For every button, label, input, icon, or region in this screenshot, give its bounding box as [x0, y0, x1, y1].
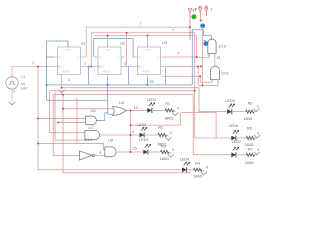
blue drop U2 Qbar node	[128, 67, 130, 85]
svg-text:U14: U14	[85, 137, 93, 142]
svg-text:4: 4	[32, 61, 34, 65]
svg-text:3: 3	[68, 78, 70, 82]
wire riser from line T3 to U12 input A	[196, 36, 198, 58]
svg-text:0: 0	[172, 148, 174, 152]
svg-text:4: 4	[192, 8, 194, 12]
svg-text:180Ω: 180Ω	[243, 117, 252, 121]
U9 out to LED1	[128, 109, 148, 111]
blue drop U3 Qbar	[165, 67, 167, 85]
svg-text:21: 21	[217, 56, 221, 60]
U13 out up to U12 input B	[214, 54, 216, 67]
wire LED1 to R1	[152, 109, 165, 111]
wire riser from line T2 down to LED6 feed	[195, 33, 232, 138]
ground after R4	[202, 170, 204, 172]
U3 reset pin to bus	[146, 79, 148, 85]
blue probe indicator	[200, 23, 205, 28]
ground after R5	[254, 110, 256, 111]
svg-text:R3: R3	[161, 145, 166, 149]
svg-text:Q: Q	[77, 58, 79, 60]
resistor R2	[158, 133, 166, 136]
blue drop from U1 Qbar node	[88, 67, 90, 85]
inverter out to U8 lower input	[95, 154, 105, 156]
svg-text:LED1: LED1	[147, 98, 156, 102]
svg-text:OUT: OUT	[106, 50, 111, 52]
LED3	[143, 144, 150, 154]
and gate U12 (points up)	[208, 39, 216, 57]
svg-text:R2: R2	[158, 126, 163, 130]
wire riser x=63 down to LED4 resistor	[63, 95, 190, 173]
svg-text:8: 8	[201, 18, 203, 22]
svg-text:U3: U3	[162, 40, 168, 45]
blue bus wire y=84.9	[47, 84, 193, 86]
green probe indicator	[191, 14, 196, 19]
svg-text:LED5: LED5	[225, 99, 234, 103]
blue wire to gates area	[47, 100, 113, 120]
svg-text:U8: U8	[108, 137, 114, 142]
svg-text:180Ω: 180Ω	[245, 143, 254, 147]
ground after R1	[174, 110, 176, 112]
wire riser x=49.7 to U7 upper input	[50, 91, 85, 133]
wire riser x=58.1 to U7 lower input, bus D	[55, 92, 86, 141]
and gate U13 (points up)	[211, 66, 220, 82]
blue feedback loop U1	[47, 41, 69, 100]
ground under V1	[9, 102, 15, 105]
ground after R6	[255, 137, 257, 138]
svg-text:0: 0	[257, 131, 259, 135]
svg-text:1: 1	[84, 62, 86, 66]
blue drop U2 bottom pin	[107, 79, 109, 100]
and gate U5	[86, 116, 101, 125]
svg-text:0: 0	[177, 107, 179, 111]
svg-text:R1: R1	[165, 102, 170, 106]
svg-text:R6: R6	[247, 127, 252, 131]
svg-text:9: 9	[99, 151, 101, 155]
svg-text:LED2: LED2	[137, 123, 146, 127]
svg-text:4: 4	[132, 130, 134, 134]
LED1 branch loop	[131, 110, 217, 152]
svg-text:U9: U9	[119, 100, 125, 105]
wire LED7 to R7	[236, 154, 246, 156]
svg-text:CLK: CLK	[60, 67, 65, 69]
svg-text:RESET: RESET	[63, 72, 71, 74]
probe P3, net 7	[205, 6, 209, 16]
wire LED3 to R3	[148, 151, 161, 153]
wire branch x=58.1 to U5 lower input	[58, 121, 86, 123]
wire riser x=77 and U8 upper input feed	[38, 98, 106, 150]
resistor R3	[161, 150, 169, 153]
svg-text:15: 15	[133, 147, 137, 151]
U8 out to LED3	[116, 151, 143, 153]
or gate U9	[112, 107, 128, 116]
chain U2 Qbar to U3 CLK, riser to line T2	[91, 33, 194, 67]
svg-text:V1: V1	[21, 75, 25, 79]
and gate U7	[85, 130, 101, 139]
LED5	[227, 104, 234, 114]
svg-text:180Ω: 180Ω	[164, 117, 173, 121]
blue probe indicator at U12	[204, 39, 206, 42]
resistor R7	[246, 153, 254, 156]
wire stub y=76.2 to U13 input A riser	[162, 76, 201, 82]
ground after R3	[169, 152, 171, 154]
LED2	[140, 127, 147, 137]
svg-text:2: 2	[124, 62, 126, 66]
red bus A (y=87.8) and LED5 feed wire	[62, 88, 228, 112]
svg-text:12: 12	[134, 106, 138, 110]
resistor R6	[246, 136, 254, 139]
svg-text:LED4: LED4	[180, 157, 189, 161]
resistor R1	[165, 109, 173, 112]
svg-text:OUT: OUT	[65, 50, 70, 52]
U1 reset pin to ground and bus	[61, 79, 63, 88]
U13 input feeds	[166, 27, 218, 86]
svg-text:0: 0	[13, 90, 15, 94]
svg-text:Q: Q	[157, 58, 159, 60]
wire LED6 to R6	[236, 137, 246, 139]
resistor R4	[194, 168, 202, 171]
wire riser x=53.2 to inverter U14 input	[53, 95, 79, 156]
clock chain wire U1 Qbar to U2 CLK, riser to top line T1	[84, 27, 190, 66]
U2 top pin riser from T3	[107, 36, 147, 48]
svg-text:Q: Q	[118, 58, 120, 60]
svg-text:RESET: RESET	[143, 72, 151, 74]
LED7	[231, 147, 238, 157]
inverter U14	[80, 151, 95, 160]
red bus C (y=94.6) and LED7 feed wire	[53, 95, 231, 155]
svg-text:180Ω: 180Ω	[245, 161, 254, 165]
wire V1 top to U1 CLK	[12, 67, 54, 102]
blue riser right side to U12 output	[192, 30, 211, 85]
svg-text:1kHz: 1kHz	[20, 87, 28, 91]
svg-text:180Ω: 180Ω	[193, 174, 202, 178]
LED4	[182, 162, 189, 172]
ground after R2	[167, 135, 169, 137]
clock source V1	[6, 77, 18, 89]
svg-text:R5: R5	[248, 101, 253, 105]
svg-text:RESET: RESET	[103, 72, 111, 74]
svg-text:23: 23	[150, 80, 154, 84]
svg-text:7: 7	[210, 8, 212, 12]
svg-text:180Ω: 180Ω	[160, 157, 169, 161]
wire LED5 to R5	[232, 111, 246, 113]
line T3 from x=91.2 to right, riser to U2 D area	[95, 35, 197, 37]
resistor R5	[246, 110, 254, 113]
svg-text:0: 0	[257, 148, 259, 152]
svg-text:U13: U13	[221, 71, 229, 76]
svg-text:0: 0	[257, 105, 259, 109]
svg-text:U7: U7	[89, 125, 95, 130]
svg-text:U2: U2	[120, 40, 126, 45]
flip-flop U2	[95, 44, 125, 79]
wire riser x=38 from clock net down to LED4 row	[38, 67, 182, 170]
red bus B (y=90.8)	[50, 90, 195, 92]
wire LED4 to R4	[187, 169, 194, 171]
and gate U8	[105, 147, 116, 157]
LED1	[147, 103, 154, 113]
wire LED2 to R2	[144, 134, 158, 136]
svg-text:LED3: LED3	[139, 138, 148, 142]
blue loop U2-U3 D inputs	[94, 39, 134, 57]
svg-text:LED6: LED6	[229, 124, 238, 128]
blue junction dots	[46, 66, 149, 86]
svg-text:CLK: CLK	[140, 67, 145, 69]
svg-text:0: 0	[206, 166, 208, 170]
flip-flop U1	[54, 44, 84, 79]
wire U3 Q output, net T	[164, 54, 209, 58]
wire branch x=38 to U5 upper input	[38, 118, 86, 120]
wire branch to U9 upper input	[63, 108, 113, 110]
svg-text:U5: U5	[91, 108, 97, 113]
svg-text:0: 0	[170, 131, 172, 135]
probe P1, net 4	[188, 9, 196, 41]
svg-text:U1: U1	[81, 41, 87, 46]
flip-flop U3	[134, 44, 164, 79]
svg-text:R7: R7	[248, 147, 253, 151]
probe P2, net 8	[198, 6, 202, 22]
red junction dots	[37, 26, 204, 153]
svg-text:OUT: OUT	[145, 50, 150, 52]
svg-text:U12: U12	[219, 44, 227, 49]
svg-text:R4: R4	[195, 162, 200, 166]
ground after R7	[255, 154, 257, 155]
LED6	[231, 130, 238, 140]
svg-text:CLK: CLK	[100, 67, 105, 69]
svg-text:LED7: LED7	[232, 140, 241, 144]
U7 out to LED2	[100, 134, 140, 136]
